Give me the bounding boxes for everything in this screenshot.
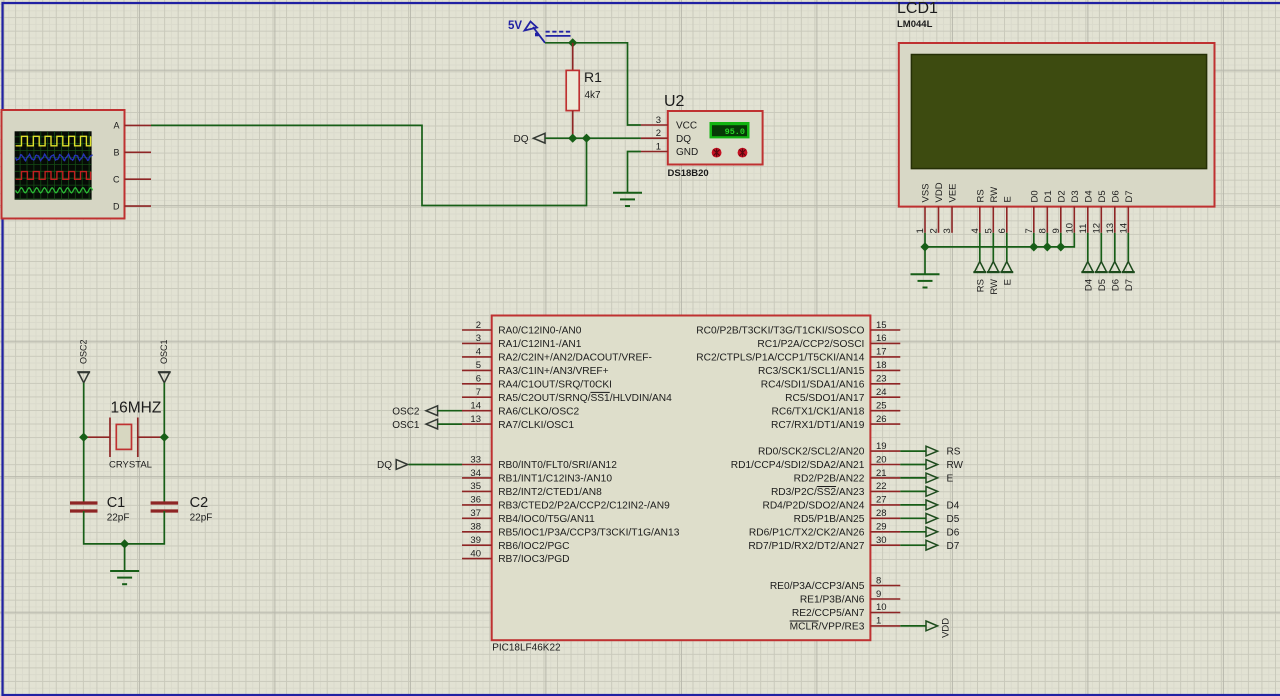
oscilloscope trace channel C (red square wave) [16, 172, 91, 180]
svg-text:34: 34 [470, 468, 481, 479]
svg-text:D5: D5 [1097, 190, 1108, 202]
svg-text:LM044L: LM044L [897, 19, 933, 30]
svg-text:RD4/P2D/SDO2/AN24: RD4/P2D/SDO2/AN24 [762, 501, 864, 512]
svg-text:LCD1: LCD1 [897, 0, 938, 17]
svg-text:D4: D4 [1083, 279, 1094, 291]
oscilloscope pin D stub [125, 205, 152, 207]
svg-text:RS: RS [975, 189, 986, 202]
svg-text:8: 8 [1037, 228, 1048, 233]
terminal E (LCD) [1001, 262, 1012, 273]
svg-text:D6: D6 [1110, 279, 1121, 291]
svg-text:10: 10 [876, 602, 887, 613]
svg-text:5: 5 [983, 228, 994, 233]
svg-text:RD0/SCK2/SCL2/AN20: RD0/SCK2/SCL2/AN20 [758, 447, 865, 458]
svg-text:13: 13 [470, 414, 481, 425]
terminal RS (LCD) [974, 262, 985, 273]
terminal DQ (chip) symbol [396, 460, 408, 470]
svg-text:RD3/P2C/SS2/AN23: RD3/P2C/SS2/AN23 [771, 487, 865, 498]
svg-text:VDD: VDD [941, 618, 952, 638]
svg-text:U2: U2 [664, 93, 685, 110]
wire: U1 to terminal D6 [900, 531, 926, 533]
oscilloscope trace channel A (yellow square wave) [16, 136, 91, 146]
U1 pin 20 stub (right) [870, 464, 900, 466]
svg-text:14: 14 [470, 401, 481, 412]
svg-text:36: 36 [470, 495, 481, 506]
wire: LCD pin 4 (RS) to terminal [979, 233, 981, 262]
svg-text:D7: D7 [1124, 190, 1135, 202]
svg-text:RA6/CLKO/OSC2: RA6/CLKO/OSC2 [498, 406, 579, 417]
junction DQ / oscilloscope wire [582, 134, 591, 143]
wire: LCD pin 12 (D5) to terminal [1100, 233, 1102, 262]
svg-text:22pF: 22pF [107, 513, 130, 524]
svg-text:RB5/IOC1/P3A/CCP3/T3CKI/T1G/AN: RB5/IOC1/P3A/CCP3/T3CKI/T1G/AN13 [498, 527, 680, 538]
svg-text:4: 4 [476, 347, 481, 358]
junction crystal right / OSC1 [160, 433, 169, 442]
svg-text:37: 37 [470, 508, 481, 519]
svg-text:39: 39 [470, 535, 481, 546]
terminal E (chip right) [926, 473, 938, 483]
junction at 5V / R1 [568, 38, 577, 47]
wire: LCD pin 14 (D7) to terminal [1127, 233, 1129, 262]
LCD1 pin 13 stub [1114, 207, 1116, 233]
svg-text:3: 3 [476, 333, 481, 344]
svg-text:RA5/C2OUT/SRNQ/SS1/HLVDIN/AN4: RA5/C2OUT/SRNQ/SS1/HLVDIN/AN4 [498, 393, 672, 404]
svg-text:VSS: VSS [921, 183, 932, 202]
svg-text:RC1/P2A/CCP2/SOSCI: RC1/P2A/CCP2/SOSCI [757, 339, 864, 350]
junction LCD VSS / data bus [920, 242, 929, 251]
U1 pin 6 stub (left) [462, 383, 492, 385]
LCD1 pin 10 stub [1073, 207, 1075, 233]
svg-text:RB3/CTED2/P2A/CCP2/C12IN2-/AN9: RB3/CTED2/P2A/CCP2/C12IN2-/AN9 [498, 501, 670, 512]
wire: U1 to terminal RW [900, 464, 926, 466]
U1 pin 34 stub (left) [462, 477, 492, 479]
svg-text:C: C [113, 174, 120, 184]
LCD1 pin 5 stub [992, 207, 994, 233]
terminal VDD symbol [926, 621, 938, 631]
svg-text:9: 9 [1051, 228, 1062, 233]
junction bus D1 [1043, 242, 1052, 251]
svg-text:16: 16 [876, 333, 887, 344]
wire: 5V to R1 top and U2 VCC [545, 43, 641, 125]
svg-text:RE0/P3A/CCP3/AN5: RE0/P3A/CCP3/AN5 [770, 581, 865, 592]
svg-text:22pF: 22pF [190, 513, 213, 524]
svg-text:95.0: 95.0 [725, 127, 745, 137]
svg-text:9: 9 [876, 589, 881, 600]
svg-text:OSC1: OSC1 [159, 339, 169, 364]
terminal D5 (LCD) [1096, 262, 1107, 273]
terminal D5 (chip right) [926, 513, 938, 523]
terminal D4 (LCD) [1082, 262, 1093, 273]
LCD1 pin 7 stub [1033, 207, 1035, 233]
svg-text:27: 27 [876, 495, 887, 506]
svg-text:2: 2 [929, 228, 940, 233]
U1 pin 9 stub (right) [870, 598, 900, 600]
svg-text:30: 30 [876, 535, 887, 546]
U1 pin 35 stub (left) [462, 490, 492, 492]
junction crystal left / OSC2 [79, 433, 88, 442]
wire: C1 bottom to ground bus [84, 511, 165, 544]
svg-text:VDD: VDD [934, 182, 945, 202]
svg-text:RA3/C1IN+/AN3/VREF+: RA3/C1IN+/AN3/VREF+ [498, 366, 608, 377]
junction DQ / R1 [568, 134, 577, 143]
terminal D7 (chip right) [926, 540, 938, 550]
svg-text:DQ: DQ [514, 134, 529, 145]
wire: U1 to terminal E [900, 477, 926, 479]
svg-text:RE2/CCP5/AN7: RE2/CCP5/AN7 [792, 608, 865, 619]
svg-text:26: 26 [876, 414, 887, 425]
U1 pin 1 stub (right) [870, 625, 900, 627]
svg-text:RC2/CTPLS/P1A/CCP1/T5CKI/AN14: RC2/CTPLS/P1A/CCP1/T5CKI/AN14 [696, 353, 864, 364]
wire: LCD pin 11 (D4) to terminal [1087, 233, 1089, 262]
svg-text:38: 38 [470, 522, 481, 533]
wire: LCD pin 5 (RW) to terminal [992, 233, 994, 262]
svg-text:D4: D4 [1083, 190, 1094, 202]
U1 pin 17 stub (right) [870, 356, 900, 358]
svg-text:RC7/RX1/DT1/AN19: RC7/RX1/DT1/AN19 [771, 420, 865, 431]
U1 pin 25 stub (right) [870, 410, 900, 412]
svg-text:28: 28 [876, 508, 887, 519]
svg-text:5V: 5V [508, 20, 522, 32]
svg-text:10: 10 [1064, 223, 1075, 234]
svg-text:C2: C2 [190, 495, 209, 511]
wire: U1 to terminal D5 [900, 517, 926, 519]
svg-text:4: 4 [970, 228, 981, 233]
terminal OSC2 (chip) symbol [426, 406, 438, 416]
wire: U1 to terminal unnamed [900, 490, 926, 492]
U1 pin 10 stub (right) [870, 612, 900, 614]
svg-text:RS: RS [947, 447, 961, 458]
U1 pin 28 stub (right) [870, 517, 900, 519]
svg-text:RE1/P3B/AN6: RE1/P3B/AN6 [800, 595, 865, 606]
wire: U1 to terminal D4 [900, 504, 926, 506]
svg-text:6: 6 [997, 228, 1008, 233]
wire: U1 to terminal D7 [900, 544, 926, 546]
svg-text:1: 1 [876, 616, 881, 627]
terminal D6 (chip right) [926, 527, 938, 537]
wire: bus to ground [124, 544, 126, 571]
resistor R1 pin bottom [572, 111, 574, 139]
svg-text:RD7/P1D/RX2/DT2/AN27: RD7/P1D/RX2/DT2/AN27 [748, 541, 864, 552]
svg-text:MCLR/VPP/RE3: MCLR/VPP/RE3 [790, 622, 865, 633]
svg-text:D3: D3 [1070, 190, 1081, 202]
terminal D4 (chip right) [926, 500, 938, 510]
svg-text:E: E [1002, 196, 1013, 202]
LCD1 pin 11 stub [1087, 207, 1089, 233]
U2 indicator LED right [738, 148, 748, 158]
svg-text:2: 2 [476, 320, 481, 331]
oscilloscope screen [15, 131, 92, 199]
LCD1 pin 1 stub [924, 207, 926, 233]
svg-text:RC3/SCK1/SCL1/AN15: RC3/SCK1/SCL1/AN15 [758, 366, 865, 377]
svg-text:D6: D6 [1110, 190, 1121, 202]
svg-text:DQ: DQ [377, 460, 392, 471]
U1 pin 7 stub (left) [462, 396, 492, 398]
LCD1 screen [911, 55, 1206, 169]
U1 pin 26 stub (right) [870, 423, 900, 425]
oscilloscope trace channel B (blue wave) [16, 154, 93, 161]
terminal unnamed (chip right) [926, 487, 938, 497]
svg-text:DS18B20: DS18B20 [668, 168, 709, 179]
svg-text:15: 15 [876, 320, 887, 331]
svg-text:OSC1: OSC1 [392, 420, 420, 431]
svg-text:RD2/P2B/AN22: RD2/P2B/AN22 [794, 474, 865, 485]
svg-text:RC6/TX1/CK1/AN18: RC6/TX1/CK1/AN18 [772, 406, 865, 417]
svg-text:RC5/SDO1/AN17: RC5/SDO1/AN17 [785, 393, 865, 404]
U2 temperature display [710, 122, 750, 138]
U1 pin 30 stub (right) [870, 544, 900, 546]
svg-text:R1: R1 [584, 69, 602, 85]
svg-text:40: 40 [470, 548, 481, 559]
svg-text:PIC18LF46K22: PIC18LF46K22 [492, 643, 561, 654]
U1 pin 3 stub (left) [462, 342, 492, 344]
U2 indicator LED left [712, 148, 722, 158]
svg-text:25: 25 [876, 401, 887, 412]
wire: LCD pin 7 (D0) to bus [1033, 233, 1035, 247]
wire: LCD pin 1 (VSS) to ground [924, 233, 926, 274]
svg-text:5: 5 [476, 360, 481, 371]
svg-text:6: 6 [476, 374, 481, 385]
power terminal 5V symbol [525, 22, 571, 43]
LCD1 pin 14 stub [1127, 207, 1129, 233]
capacitor C2 plates [151, 503, 179, 511]
svg-text:16MHZ: 16MHZ [111, 400, 162, 417]
svg-text:24: 24 [876, 387, 887, 398]
svg-text:21: 21 [876, 468, 887, 479]
LCD1 pin 4 stub [979, 207, 981, 233]
oscilloscope pin B stub [125, 151, 152, 153]
ground symbol (LCD) [911, 274, 940, 287]
svg-text:RA7/CLKI/OSC1: RA7/CLKI/OSC1 [498, 420, 574, 431]
svg-text:OSC2: OSC2 [78, 339, 88, 364]
U2 DS18B20 body [668, 111, 763, 165]
svg-text:GND: GND [676, 147, 698, 158]
U1 pin 4 stub (left) [462, 356, 492, 358]
svg-text:OSC2: OSC2 [392, 406, 420, 417]
terminal RS (chip right) [926, 446, 938, 456]
terminal D7 (LCD) [1123, 262, 1134, 273]
svg-text:RW: RW [989, 187, 1000, 203]
U1 pin 33 stub (left) [462, 464, 492, 466]
U2 pin 3 (VCC) stub [641, 124, 668, 126]
U1 pin 2 stub (left) [462, 329, 492, 331]
terminal OSC2 (crystal) symbol [78, 372, 89, 383]
resistor R1 pin top [572, 43, 574, 71]
wire: LCD ground bus D0-D3 [925, 233, 1074, 247]
svg-text:D1: D1 [1043, 190, 1054, 202]
terminal DQ (near R1) symbol [533, 133, 545, 143]
U2 pin 2 (DQ) stub [641, 137, 668, 139]
U1 pin 15 stub (right) [870, 329, 900, 331]
svg-text:1: 1 [656, 141, 661, 152]
wire: oscilloscope A to DQ net [151, 125, 587, 205]
resistor R1 body [566, 70, 579, 110]
svg-text:18: 18 [876, 360, 887, 371]
U1 pin 38 stub (left) [462, 531, 492, 533]
U1 pin 18 stub (right) [870, 369, 900, 371]
svg-text:RA1/C12IN1-/AN1: RA1/C12IN1-/AN1 [498, 339, 582, 350]
terminal OSC1 (crystal) symbol [159, 372, 170, 383]
svg-text:RA0/C12IN0-/AN0: RA0/C12IN0-/AN0 [498, 326, 582, 337]
wire: U1 to terminal RS [900, 450, 926, 452]
U1 pin 5 stub (left) [462, 369, 492, 371]
svg-text:RC4/SDI1/SDA1/AN16: RC4/SDI1/SDA1/AN16 [761, 379, 865, 390]
terminal RW (chip right) [926, 460, 938, 470]
svg-text:2: 2 [656, 128, 661, 139]
svg-text:RB2/INT2/CTED1/AN8: RB2/INT2/CTED1/AN8 [498, 487, 602, 498]
svg-text:12: 12 [1091, 223, 1102, 234]
LCD1 body [899, 43, 1215, 207]
LCD1 pin 8 stub [1046, 207, 1048, 233]
svg-text:B: B [113, 148, 119, 158]
svg-text:RD6/P1C/TX2/CK2/AN26: RD6/P1C/TX2/CK2/AN26 [749, 527, 865, 538]
wire: OSC2 terminal to U1 [438, 410, 462, 412]
wire: LCD pin 9 (D2) to bus [1060, 233, 1062, 247]
U1 pin 14 stub (left) [462, 410, 492, 412]
svg-text:VEE: VEE [948, 183, 959, 202]
terminal D6 (LCD) [1109, 262, 1120, 273]
svg-text:8: 8 [876, 575, 881, 586]
svg-text:19: 19 [876, 441, 887, 452]
svg-text:DQ: DQ [676, 134, 691, 145]
wire: LCD pin 13 (D6) to terminal [1114, 233, 1116, 262]
svg-text:22: 22 [876, 481, 887, 492]
svg-text:D7: D7 [947, 541, 960, 552]
oscilloscope pin A stub [125, 124, 152, 126]
svg-text:33: 33 [470, 454, 481, 465]
ground symbol (crystal) [110, 571, 139, 584]
LCD1 pin 9 stub [1060, 207, 1062, 233]
U1 pin 40 stub (left) [462, 558, 492, 560]
U1 pin 36 stub (left) [462, 504, 492, 506]
svg-text:D5: D5 [1097, 279, 1108, 291]
svg-text:35: 35 [470, 481, 481, 492]
svg-text:D5: D5 [947, 514, 960, 525]
wire: OSC1 terminal to U1 [438, 423, 462, 425]
junction bus D0 [1029, 242, 1038, 251]
svg-text:RA2/C2IN+/AN2/DACOUT/VREF-: RA2/C2IN+/AN2/DACOUT/VREF- [498, 353, 652, 364]
wire: OSC1 terminal down to C2/crystal [163, 383, 165, 502]
svg-text:13: 13 [1105, 223, 1116, 234]
svg-text:D4: D4 [947, 501, 960, 512]
U1 pin 23 stub (right) [870, 383, 900, 385]
junction bus D2 [1056, 242, 1065, 251]
svg-text:RD5/P1B/AN25: RD5/P1B/AN25 [794, 514, 865, 525]
svg-text:17: 17 [876, 347, 887, 358]
oscilloscope trace channel D (green sine) [16, 188, 93, 193]
svg-text:7: 7 [476, 387, 481, 398]
svg-text:D6: D6 [947, 527, 960, 538]
svg-text:RB6/IOC2/PGC: RB6/IOC2/PGC [498, 541, 569, 552]
svg-text:D0: D0 [1029, 190, 1040, 202]
svg-text:E: E [1002, 279, 1013, 285]
terminal OSC1 (chip) symbol [426, 419, 438, 429]
wire: DQ terminal to U1 pin 33 [409, 464, 462, 466]
U1 PIC18LF46K22 body [492, 316, 871, 641]
U1 pin 24 stub (right) [870, 396, 900, 398]
svg-text:RD1/CCP4/SDI2/SDA2/AN21: RD1/CCP4/SDI2/SDA2/AN21 [731, 460, 865, 471]
U1 pin 22 stub (right) [870, 490, 900, 492]
svg-text:29: 29 [876, 522, 887, 533]
U1 pin 16 stub (right) [870, 342, 900, 344]
svg-text:4k7: 4k7 [585, 90, 602, 101]
wire: LCD pin 8 (D1) to bus [1046, 233, 1048, 247]
LCD1 pin 12 stub [1100, 207, 1102, 233]
U1 pin 29 stub (right) [870, 531, 900, 533]
svg-text:CRYSTAL: CRYSTAL [109, 460, 152, 471]
svg-text:RB4/IOC0/T5G/AN11: RB4/IOC0/T5G/AN11 [498, 514, 595, 525]
U1 pin 8 stub (right) [870, 585, 900, 587]
svg-text:3: 3 [942, 228, 953, 233]
oscilloscope pin C stub [125, 178, 152, 180]
svg-text:7: 7 [1024, 228, 1035, 233]
ground symbol (U2) [613, 193, 642, 206]
svg-text:20: 20 [876, 454, 887, 465]
svg-text:RA4/C1OUT/SRQ/T0CKI: RA4/C1OUT/SRQ/T0CKI [498, 379, 612, 390]
terminal RW (LCD) [988, 262, 999, 273]
wire: LCD pin 6 (E) to terminal [1006, 233, 1008, 262]
svg-text:RC0/P2B/T3CKI/T3G/T1CKI/SOSCO: RC0/P2B/T3CKI/T3G/T1CKI/SOSCO [696, 326, 864, 337]
svg-text:RB7/IOC3/PGD: RB7/IOC3/PGD [498, 554, 569, 565]
svg-text:11: 11 [1078, 224, 1089, 234]
svg-text:C1: C1 [107, 495, 126, 511]
LCD1 pin 2 stub [938, 207, 940, 233]
svg-text:A: A [113, 121, 119, 131]
U1 pin 39 stub (left) [462, 544, 492, 546]
U1 pin 37 stub (left) [462, 517, 492, 519]
svg-text:RW: RW [989, 279, 1000, 295]
crystal X1 symbol [84, 418, 165, 458]
svg-text:RS: RS [975, 279, 986, 292]
wire: OSC2 terminal down to C1/crystal [83, 383, 85, 502]
U1 pin 13 stub (left) [462, 423, 492, 425]
wire: DQ terminal to U2 pin 2 [545, 137, 641, 139]
oscilloscope body [2, 110, 125, 219]
svg-text:D: D [113, 201, 120, 211]
svg-text:1: 1 [915, 228, 926, 233]
U2 pin 1 (GND) stub [641, 151, 668, 153]
svg-text:RB0/INT0/FLT0/SRI/AN12: RB0/INT0/FLT0/SRI/AN12 [498, 460, 617, 471]
U1 pin 21 stub (right) [870, 477, 900, 479]
svg-text:23: 23 [876, 374, 887, 385]
svg-text:RB1/INT1/C12IN3-/AN10: RB1/INT1/C12IN3-/AN10 [498, 474, 612, 485]
junction caps ground bus [120, 539, 129, 548]
svg-text:14: 14 [1118, 223, 1129, 234]
svg-text:E: E [947, 474, 954, 485]
svg-text:RW: RW [947, 460, 964, 471]
capacitor C1 plates [70, 503, 98, 511]
LCD1 pin 6 stub [1006, 207, 1008, 233]
LCD1 pin 3 stub [951, 207, 953, 233]
svg-text:3: 3 [656, 115, 661, 126]
svg-text:VCC: VCC [676, 121, 697, 132]
svg-text:D2: D2 [1056, 190, 1067, 202]
U1 pin 19 stub (right) [870, 450, 900, 452]
U1 pin 27 stub (right) [870, 504, 900, 506]
wire: U1 MCLR to VDD terminal [900, 625, 926, 627]
wire: U2 GND to ground [628, 152, 641, 193]
svg-text:D7: D7 [1124, 279, 1135, 291]
